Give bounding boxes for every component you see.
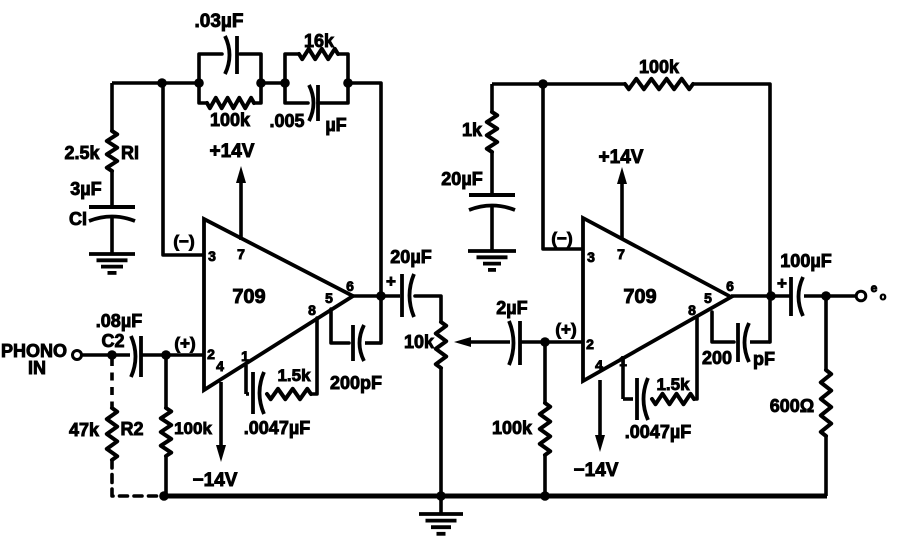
svg-text:+: + — [777, 274, 787, 293]
svg-text:100k: 100k — [492, 418, 533, 438]
label (+) stage2 — [555, 320, 576, 339]
wire R1 top — [110, 83, 114, 131]
label .0047uF U1 — [244, 418, 310, 438]
pin 2 U2 — [586, 336, 594, 352]
wire C1 to ground — [110, 216, 114, 254]
svg-text:8: 8 — [308, 302, 316, 318]
node box2 right — [343, 78, 353, 88]
label IN — [28, 358, 46, 378]
svg-text:10k: 10k — [404, 332, 435, 352]
svg-text:7: 7 — [237, 246, 245, 262]
ground below 20uF — [468, 251, 516, 270]
svg-text:7: 7 — [617, 246, 625, 262]
label (-) stage2 — [551, 229, 572, 248]
label 100uF — [780, 251, 831, 271]
wire inverting input stage2 — [543, 84, 582, 249]
wire dashed R2 bottom — [112, 460, 160, 496]
pin 8 U2 — [688, 302, 696, 318]
svg-text:.005: .005 — [269, 111, 304, 131]
label (+) stage1 — [174, 334, 195, 353]
resistor 100k input stage1 — [161, 355, 171, 496]
svg-text:2µF: 2µF — [496, 298, 527, 318]
svg-text:CI: CI — [69, 209, 87, 229]
svg-text:20µF: 20µF — [390, 247, 431, 267]
capacitor .03uF (box1 top branch) — [199, 36, 261, 83]
pin 5 U1 — [325, 290, 333, 306]
node stage2 output — [766, 291, 776, 301]
wire feedback right down — [693, 84, 770, 342]
capacitor 200pF U2 — [712, 312, 770, 362]
wire inverting input from feedback node — [163, 83, 203, 255]
label 1.5k U2 — [656, 375, 690, 394]
op-amp U2 709 — [583, 218, 731, 381]
svg-text:8: 8 — [688, 302, 696, 318]
wire dashed R2 top — [110, 358, 114, 408]
label 47k — [69, 420, 100, 440]
node box2 left — [280, 78, 290, 88]
label 600 ohm — [770, 396, 814, 416]
label + 20uF — [386, 272, 396, 291]
pin 7 U2 — [617, 246, 625, 262]
terminal PHONO IN — [73, 351, 82, 360]
capacitor .0047uF U1 — [246, 365, 264, 414]
svg-text:5: 5 — [704, 290, 712, 306]
pin 1 U2 — [619, 353, 627, 369]
svg-text:1.5k: 1.5k — [277, 366, 311, 385]
svg-text:µF: µF — [325, 115, 346, 135]
pin 3 U2 — [587, 249, 595, 265]
capacitor 2uF — [509, 321, 520, 365]
pin 3 U1 — [208, 248, 216, 264]
capacitor 20uF output stage1 — [402, 274, 414, 317]
pin 4 U1 — [216, 358, 224, 374]
terminal output eo — [856, 291, 866, 301]
wire ground rail — [162, 494, 827, 499]
svg-text:−14V: −14V — [193, 470, 238, 491]
label .08uF — [96, 311, 142, 331]
pin 5 U2 — [704, 290, 712, 306]
label o output — [880, 291, 887, 303]
svg-text:.03µF: .03µF — [195, 11, 244, 32]
wire 100uF to terminal — [804, 294, 856, 298]
op-amp U1 709 — [204, 219, 353, 390]
wire input to C2 — [82, 353, 130, 357]
supply +14V U2 — [617, 167, 627, 238]
svg-text:200: 200 — [702, 348, 732, 368]
pin 8 U1 — [308, 302, 316, 318]
resistor R1 2.5k — [107, 131, 117, 171]
svg-text:IN: IN — [28, 358, 46, 378]
label 2uF — [496, 298, 527, 318]
node inverting junction stage2 — [538, 79, 548, 89]
node noninverting input stage1 — [161, 350, 171, 360]
pin 1 U1 — [241, 348, 249, 364]
label 100k feedback — [639, 57, 680, 77]
svg-text:5: 5 — [325, 290, 333, 306]
svg-text:3: 3 — [208, 248, 216, 264]
svg-text:1.5k: 1.5k — [656, 375, 690, 394]
potentiometer 10k — [436, 322, 446, 496]
wire R1 to C1 — [110, 171, 114, 207]
wiper arrow 10k — [454, 337, 510, 347]
resistor 1.5k U2 — [652, 318, 697, 404]
capacitor 100uF output — [791, 277, 803, 316]
svg-text:e: e — [871, 281, 878, 295]
supply -14V U2 — [595, 380, 605, 452]
label 3uF — [70, 179, 101, 199]
capacitor .0047uF U2 — [623, 356, 648, 420]
resistor 16k (box2 top branch) — [285, 49, 348, 83]
svg-text:(−): (−) — [551, 229, 572, 248]
svg-text:pF: pF — [753, 349, 775, 369]
wire 2uF to U2 — [520, 340, 582, 344]
label 100k input stage2 — [492, 418, 533, 438]
capacitor C1 3uF — [89, 207, 135, 221]
label 200pF U1 — [330, 373, 382, 393]
wire between boxes — [261, 81, 285, 85]
label +14V U2 — [599, 147, 644, 168]
svg-text:709: 709 — [623, 286, 656, 308]
svg-text:1k: 1k — [462, 120, 483, 140]
node 600 ohm tap — [821, 291, 831, 301]
svg-text:100k: 100k — [174, 419, 212, 438]
label 1k — [462, 120, 483, 140]
node rail center — [436, 491, 446, 501]
label -14V U1 — [193, 470, 238, 491]
svg-text:(+): (+) — [555, 320, 576, 339]
svg-text:2.5k: 2.5k — [64, 143, 100, 163]
label 20uF stage2 — [441, 169, 482, 189]
wire U2 output — [731, 294, 791, 298]
svg-text:6: 6 — [346, 278, 354, 294]
label +14V U1 — [210, 141, 255, 162]
svg-text:(+): (+) — [174, 334, 195, 353]
svg-text:600Ω: 600Ω — [770, 396, 814, 416]
svg-text:o: o — [880, 291, 887, 303]
label 20uF stage1 — [390, 247, 431, 267]
label + 100uF — [777, 274, 787, 293]
node box1 right — [256, 78, 266, 88]
label pF U2 — [753, 349, 775, 369]
svg-text:6: 6 — [726, 278, 734, 294]
svg-text:.08µF: .08µF — [96, 311, 142, 331]
node rail stage2 — [540, 491, 550, 501]
label 100k input stage1 — [174, 419, 212, 438]
wire top feedback left segment — [112, 81, 200, 85]
node noninverting input stage2 — [540, 337, 550, 347]
svg-text:−14V: −14V — [574, 460, 619, 481]
label 2.5k — [64, 143, 100, 163]
svg-text:3: 3 — [587, 249, 595, 265]
svg-text:+14V: +14V — [210, 141, 255, 162]
label 200 U2 — [702, 348, 732, 368]
capacitor .005uF (box2 bottom branch) — [285, 83, 348, 121]
label CI — [69, 209, 87, 229]
svg-text:+: + — [386, 272, 396, 291]
supply -14V U1 — [216, 382, 226, 462]
svg-text:3µF: 3µF — [70, 179, 101, 199]
wire feedback to output node — [348, 83, 381, 343]
resistor 100k (box1 bottom branch) — [199, 83, 261, 108]
svg-text:100k: 100k — [210, 110, 251, 130]
svg-text:C2: C2 — [101, 331, 124, 351]
wire C2 to op-amp — [141, 353, 203, 357]
capacitor C2 .08uF — [131, 336, 141, 377]
pin 6 U2 — [726, 278, 734, 294]
wire top rail stage2 — [492, 82, 625, 86]
label uF box2 — [325, 115, 346, 135]
label 100k box1 — [210, 110, 251, 130]
svg-text:4: 4 — [595, 357, 603, 373]
node stage1 output — [376, 291, 386, 301]
label -14V U2 — [574, 460, 619, 481]
node box1 left — [194, 78, 204, 88]
svg-text:100µF: 100µF — [780, 251, 831, 271]
resistor 1.5k U1 — [267, 318, 317, 399]
svg-text:.0047µF: .0047µF — [244, 418, 310, 438]
label .0047uF U2 — [625, 422, 691, 442]
svg-text:.0047µF: .0047µF — [625, 422, 691, 442]
label .03uF — [195, 11, 244, 32]
label RI — [121, 143, 139, 163]
svg-text:16k: 16k — [304, 31, 335, 51]
svg-text:20µF: 20µF — [441, 169, 482, 189]
wire U1 output — [353, 294, 400, 298]
label 1.5k U1 — [277, 366, 311, 385]
label PHONO — [1, 341, 67, 361]
wire 20uF to pot — [415, 296, 441, 322]
resistor 1k — [487, 84, 497, 152]
svg-text:R2: R2 — [120, 419, 143, 439]
pin 7 U1 — [237, 246, 245, 262]
capacitor 20uF stage2 — [469, 195, 515, 210]
label (-) stage1 — [173, 232, 194, 251]
svg-text:1: 1 — [241, 348, 249, 364]
label e output — [871, 281, 878, 295]
pin 2 U1 — [207, 346, 215, 362]
label .005 — [269, 111, 304, 131]
label 16k — [304, 31, 335, 51]
ground below C1 — [89, 254, 135, 273]
ground center rail — [419, 496, 463, 534]
svg-text:+14V: +14V — [599, 147, 644, 168]
svg-text:4: 4 — [216, 358, 224, 374]
svg-text:200pF: 200pF — [330, 373, 382, 393]
svg-text:100k: 100k — [639, 57, 680, 77]
svg-text:709: 709 — [232, 286, 265, 308]
label 10k — [404, 332, 435, 352]
pin 4 U2 — [595, 357, 603, 373]
resistor 600 ohm — [821, 296, 831, 496]
svg-text:47k: 47k — [69, 420, 100, 440]
svg-text:2: 2 — [207, 346, 215, 362]
resistor 100k input stage2 — [540, 342, 550, 496]
capacitor 200pF U1 — [331, 309, 381, 361]
svg-text:2: 2 — [586, 336, 594, 352]
resistor R2 47k — [107, 408, 117, 460]
supply +14V U1 — [236, 166, 246, 240]
wire 1k to 20uF — [490, 152, 494, 195]
node rail left — [159, 491, 169, 501]
node R2 tap — [107, 350, 117, 360]
svg-text:RI: RI — [121, 143, 139, 163]
resistor 100k feedback stage2 — [625, 79, 693, 89]
label C2 — [101, 331, 124, 351]
svg-text:(−): (−) — [173, 232, 194, 251]
wire 20uF to ground — [490, 205, 494, 251]
node feedback junction — [157, 78, 167, 88]
pin 6 U1 — [346, 278, 354, 294]
label R2 — [120, 419, 143, 439]
